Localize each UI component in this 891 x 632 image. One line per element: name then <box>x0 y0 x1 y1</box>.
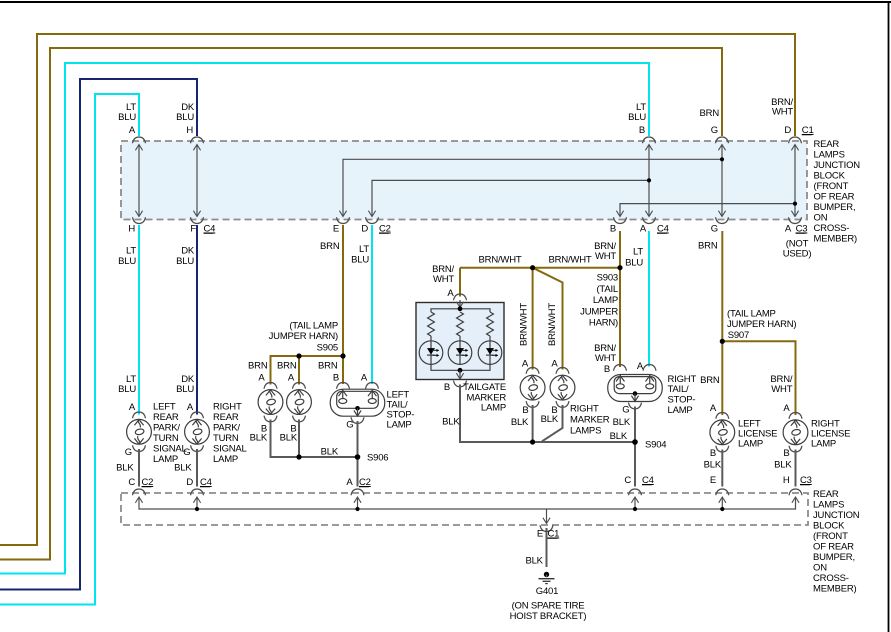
svg-text:G: G <box>622 405 629 416</box>
svg-text:LAMP: LAMP <box>811 439 836 450</box>
svg-text:LAMP: LAMP <box>213 454 238 465</box>
svg-text:G401: G401 <box>536 586 558 597</box>
svg-text:(ON SPARE TIRE: (ON SPARE TIRE <box>512 601 585 612</box>
svg-text:E: E <box>537 529 543 540</box>
svg-text:BLU: BLU <box>176 384 194 395</box>
svg-text:D: D <box>784 125 791 136</box>
svg-text:ON: ON <box>813 563 827 574</box>
svg-text:BLK: BLK <box>541 414 559 425</box>
svg-text:BLK: BLK <box>610 431 628 442</box>
svg-text:E: E <box>710 475 716 486</box>
svg-text:LAMPS: LAMPS <box>813 500 844 511</box>
svg-text:A: A <box>785 224 792 235</box>
svg-text:A: A <box>637 361 644 372</box>
svg-text:BLK: BLK <box>280 433 298 444</box>
svg-text:WHT: WHT <box>771 384 792 395</box>
svg-text:TAILGATE: TAILGATE <box>463 382 506 393</box>
svg-text:H: H <box>128 224 135 235</box>
svg-text:LT: LT <box>126 246 136 257</box>
svg-text:LAMP: LAMP <box>593 295 618 306</box>
svg-text:BLK: BLK <box>774 460 792 471</box>
svg-text:LAMP: LAMP <box>387 420 412 431</box>
svg-text:B: B <box>783 448 789 459</box>
svg-text:LT: LT <box>633 247 643 258</box>
svg-text:WHT: WHT <box>595 251 616 262</box>
svg-text:LT: LT <box>359 244 369 255</box>
svg-text:BRN: BRN <box>700 108 720 119</box>
svg-text:BRN: BRN <box>698 241 718 252</box>
svg-text:B: B <box>639 125 645 136</box>
svg-text:ON: ON <box>814 213 828 224</box>
svg-text:OF REAR: OF REAR <box>814 192 855 203</box>
svg-text:A: A <box>361 373 368 384</box>
svg-text:TURN: TURN <box>153 433 179 444</box>
svg-text:(TAIL LAMP: (TAIL LAMP <box>289 321 338 332</box>
svg-text:BRN: BRN <box>248 361 268 372</box>
svg-text:A: A <box>258 373 265 384</box>
svg-text:CROSS-: CROSS- <box>814 223 850 234</box>
svg-text:F: F <box>190 224 196 235</box>
svg-text:BLU: BLU <box>628 112 646 123</box>
svg-text:D: D <box>361 224 368 235</box>
svg-text:BUMPER,: BUMPER, <box>814 202 856 213</box>
svg-text:E: E <box>333 224 339 235</box>
svg-text:BRN/WHT: BRN/WHT <box>479 255 522 266</box>
svg-text:BLU: BLU <box>118 256 136 267</box>
svg-text:(FRONT: (FRONT <box>813 531 848 542</box>
svg-text:S904: S904 <box>645 440 666 451</box>
svg-text:HARN): HARN) <box>589 318 618 329</box>
svg-text:MEMBER): MEMBER) <box>813 584 856 595</box>
svg-text:REAR: REAR <box>814 139 840 150</box>
svg-text:C: C <box>624 475 631 486</box>
svg-text:BLOCK: BLOCK <box>814 171 846 182</box>
svg-text:A: A <box>783 403 790 414</box>
svg-text:BRN/WHT: BRN/WHT <box>518 303 529 346</box>
svg-text:SIGNAL: SIGNAL <box>213 444 247 455</box>
svg-text:G: G <box>125 447 132 458</box>
svg-text:A: A <box>129 125 136 136</box>
svg-text:(TAIL LAMP: (TAIL LAMP <box>727 309 776 320</box>
svg-text:S905: S905 <box>317 343 338 354</box>
svg-text:BLK: BLK <box>250 433 268 444</box>
svg-text:JUNCTION: JUNCTION <box>813 510 860 521</box>
svg-text:BLK: BLK <box>525 556 543 567</box>
svg-text:BLK: BLK <box>704 460 722 471</box>
svg-text:B: B <box>333 373 339 384</box>
svg-text:H: H <box>783 475 790 486</box>
svg-text:BLOCK: BLOCK <box>813 521 845 532</box>
svg-text:WHT: WHT <box>595 353 616 364</box>
svg-text:MARKER: MARKER <box>570 415 610 426</box>
svg-text:BLK: BLK <box>442 417 460 428</box>
svg-text:REAR: REAR <box>153 412 179 423</box>
svg-text:PARK/: PARK/ <box>153 423 180 434</box>
svg-text:S903: S903 <box>597 273 618 284</box>
svg-text:WHT: WHT <box>772 107 793 118</box>
svg-text:HOIST BRACKET): HOIST BRACKET) <box>510 611 587 622</box>
svg-text:MEMBER): MEMBER) <box>814 234 857 245</box>
svg-text:JUMPER: JUMPER <box>580 307 618 318</box>
svg-text:LAMP: LAMP <box>668 405 693 416</box>
svg-text:BLK: BLK <box>511 417 529 428</box>
svg-text:LAMP: LAMP <box>481 403 506 414</box>
svg-text:S907: S907 <box>728 330 749 341</box>
svg-text:G: G <box>183 447 190 458</box>
svg-text:REAR: REAR <box>813 489 839 500</box>
svg-text:RIGHT: RIGHT <box>213 402 242 413</box>
svg-text:WHT: WHT <box>433 274 454 285</box>
svg-text:D: D <box>186 477 193 488</box>
svg-text:B: B <box>444 382 450 393</box>
svg-text:B: B <box>522 405 528 416</box>
svg-text:LAMPS: LAMPS <box>570 426 601 437</box>
svg-text:BLU: BLU <box>625 258 643 269</box>
svg-text:BLU: BLU <box>118 112 136 123</box>
svg-text:A: A <box>288 373 295 384</box>
svg-text:B: B <box>610 224 616 235</box>
svg-text:DK: DK <box>181 246 195 257</box>
svg-text:BLU: BLU <box>176 256 194 267</box>
svg-text:BRN: BRN <box>318 361 338 372</box>
svg-text:BRN: BRN <box>700 375 720 386</box>
svg-text:H: H <box>186 125 193 136</box>
svg-text:A: A <box>129 402 136 413</box>
svg-text:TAIL/: TAIL/ <box>668 384 690 395</box>
svg-text:A: A <box>187 402 194 413</box>
svg-text:BRN: BRN <box>277 361 297 372</box>
svg-text:A: A <box>710 403 717 414</box>
svg-text:PARK/: PARK/ <box>213 423 240 434</box>
svg-text:RIGHT: RIGHT <box>570 404 599 415</box>
svg-text:CROSS-: CROSS- <box>813 573 849 584</box>
svg-text:A: A <box>522 359 529 370</box>
svg-text:LAMPS: LAMPS <box>814 150 845 161</box>
svg-text:A: A <box>346 477 353 488</box>
svg-text:C: C <box>128 477 135 488</box>
svg-text:A: A <box>447 288 454 299</box>
svg-text:BUMPER,: BUMPER, <box>813 552 855 563</box>
svg-text:(TAIL: (TAIL <box>596 284 618 295</box>
svg-text:LEFT: LEFT <box>153 402 176 413</box>
svg-text:(FRONT: (FRONT <box>814 181 849 192</box>
svg-text:SIGNAL: SIGNAL <box>153 444 187 455</box>
svg-text:BRN/WHT: BRN/WHT <box>549 255 592 266</box>
svg-text:BLU: BLU <box>176 112 194 123</box>
svg-text:STOP-: STOP- <box>668 395 696 406</box>
svg-text:USED): USED) <box>783 249 812 260</box>
svg-text:BRN: BRN <box>320 241 340 252</box>
svg-text:BLK: BLK <box>174 463 192 474</box>
svg-text:REAR: REAR <box>213 412 239 423</box>
svg-text:A: A <box>551 359 558 370</box>
svg-text:G: G <box>711 125 718 136</box>
svg-text:OF REAR: OF REAR <box>813 542 854 553</box>
svg-text:JUMPER HARN): JUMPER HARN) <box>269 331 338 342</box>
svg-text:BLU: BLU <box>351 255 369 266</box>
svg-text:JUNCTION: JUNCTION <box>814 160 861 171</box>
svg-text:BRN/WHT: BRN/WHT <box>547 303 558 346</box>
svg-text:G: G <box>346 420 353 431</box>
svg-text:B: B <box>604 364 610 375</box>
svg-text:BLK: BLK <box>613 417 631 428</box>
svg-text:BLK: BLK <box>321 447 339 458</box>
svg-text:BLK: BLK <box>116 463 134 474</box>
svg-text:TURN: TURN <box>213 433 239 444</box>
svg-text:B: B <box>710 448 716 459</box>
svg-text:JUMPER HARN): JUMPER HARN) <box>727 319 796 330</box>
svg-text:LAMP: LAMP <box>738 439 763 450</box>
svg-text:G: G <box>711 224 718 235</box>
svg-text:BLU: BLU <box>118 384 136 395</box>
svg-text:A: A <box>640 224 647 235</box>
svg-text:S906: S906 <box>367 453 388 464</box>
